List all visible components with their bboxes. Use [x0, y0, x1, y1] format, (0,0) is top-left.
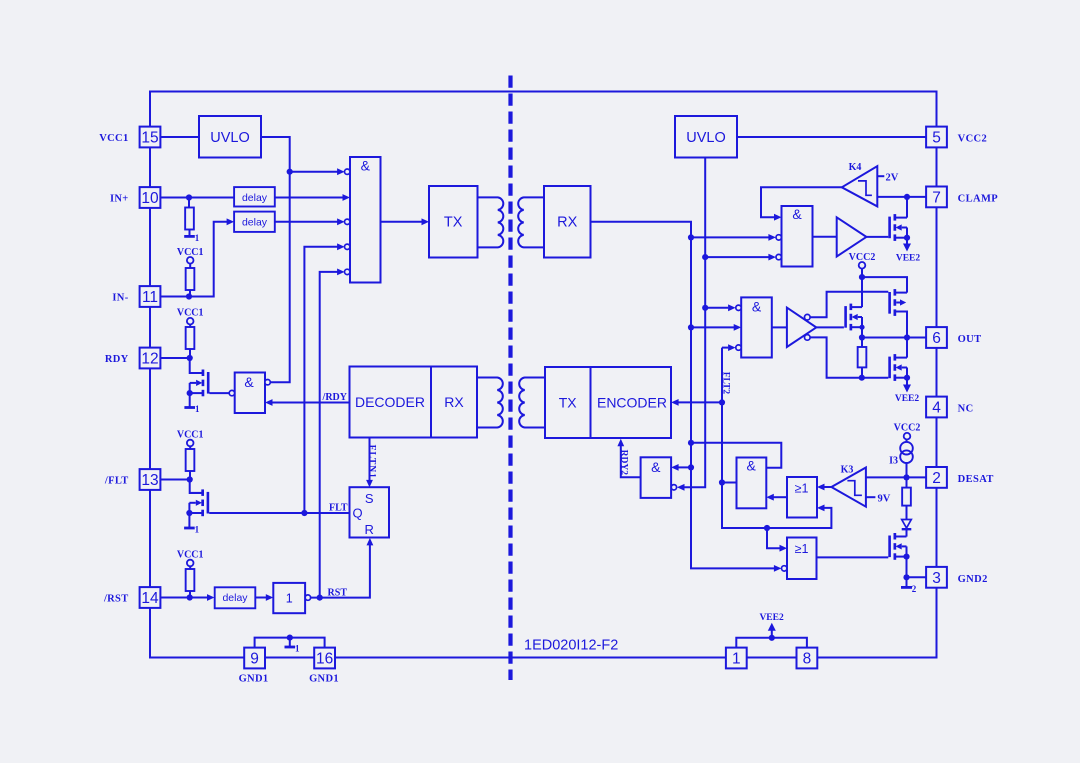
wire pin11 to delay D2 (riser) [161, 222, 228, 297]
svg-text:R: R [365, 522, 374, 537]
AND U8 (fault combine gate) [737, 458, 767, 509]
wire OR U11b output to Q7 gate [817, 556, 889, 558]
resistor R4 (pullup at /FLT) [189, 446, 191, 449]
node junction VCC2 rail [859, 274, 865, 280]
svg-text:VEE2: VEE2 [895, 394, 920, 404]
wire net FLT: Q2 gate / latch U4 Q output [209, 512, 349, 514]
wire outer border frame of IC [150, 92, 937, 658]
resistor R3 (pullup at RDY) [189, 324, 191, 327]
wire branch to AND U2 input 1 [290, 171, 338, 173]
node junction FLT2 / U8 output [719, 479, 725, 485]
svg-text:4: 4 [932, 400, 941, 417]
svg-text:&: & [244, 374, 254, 390]
pin 5 VCC2 [926, 127, 947, 148]
wire 2V reference stub [877, 175, 884, 177]
current source I3 (two circles) [906, 439, 908, 442]
pin 14 /RST [140, 587, 161, 608]
wire AND U8 output stub [722, 482, 737, 484]
wire UVLO2 to pin5 [737, 136, 926, 138]
svg-text:UVLO: UVLO [686, 130, 726, 146]
wire branch to AND U6 input 2 [691, 236, 769, 238]
node junction pin11/R2 [186, 293, 192, 299]
wire UVLO1 output net (to AND U2 input 1 and AND U3 output node) [261, 137, 290, 382]
block UVLO1 (primary undervoltage lockout) [199, 116, 261, 158]
wire FLT2 top branch to AND U7 input 3 [722, 347, 728, 349]
svg-text:2: 2 [932, 470, 941, 487]
wire CLAMP sense: pin7 to comparator K4 [877, 196, 926, 198]
pin 11 IN- [140, 286, 161, 307]
wire Q1 gate to AND U3 output bubble [210, 392, 230, 394]
svg-text:2: 2 [912, 584, 917, 594]
wire AND U7 output to inverter U12 [772, 326, 787, 328]
buffer U5 (pulse shaper '1') [273, 583, 305, 613]
svg-text:FLT: FLT [329, 503, 348, 514]
wire Q6 source to VEE2 [906, 378, 908, 385]
wire delay D2 output to AND U2 input 3 [275, 221, 338, 223]
transformer TR1 primary winding [478, 197, 504, 247]
transistor Q4 (pre-driver NMOS) [850, 304, 853, 311]
transistor Q1 (RDY open-drain NMOS) [202, 370, 205, 377]
pin 8 VEE2 [797, 648, 818, 669]
node junction pin12/R3/Q1 drain [187, 355, 193, 361]
pin 16 GND1 [314, 648, 335, 669]
node junction FLT branch [301, 510, 307, 516]
svg-text:Q: Q [352, 506, 362, 521]
pin 2 DESAT [926, 467, 947, 488]
svg-text:RDY2: RDY2 [619, 450, 629, 476]
wire comparator K4 output to AND U6 input 1 [761, 187, 842, 217]
node junction RXDATA / AND U9 in1 [688, 464, 694, 470]
wire net RXDATA (x=691 rail) from RX1 output [591, 222, 775, 569]
wire Q6 drain to OUT [906, 338, 908, 358]
svg-text:7: 7 [932, 189, 941, 206]
wire delay D1 output to AND U2 input 2 [275, 197, 343, 199]
wire Q1 drain [190, 358, 202, 373]
svg-text:delay: delay [242, 192, 268, 204]
pin 12 RDY [140, 348, 161, 369]
svg-text:1: 1 [195, 525, 200, 535]
transistor Q3 (CLAMP NMOS) [894, 214, 897, 221]
wire net FLT2: AND U8 output rail [678, 401, 722, 403]
AND U6 input bubbles [776, 235, 781, 240]
transistor Q7 (desat discharge NMOS) [894, 533, 897, 540]
node junction CLAMP net [904, 194, 910, 200]
svg-text:11: 11 [142, 289, 158, 306]
ground 2 below GND2 node [906, 577, 908, 587]
svg-text:VEE2: VEE2 [896, 254, 921, 264]
AND U6 (clamp logic gate) [782, 206, 813, 267]
op-amp U2: 5-input AND gate (IEC box) [350, 157, 381, 283]
svg-text:DESAT: DESAT [958, 474, 994, 485]
svg-text:1ED020I12-F2: 1ED020I12-F2 [524, 638, 618, 654]
node junction GND1 bracket [287, 635, 293, 641]
wire RST branch up to AND U2 input 5 [320, 272, 338, 598]
wire pin12 to R3/Q1 node [161, 357, 190, 359]
svg-text:/FLT: /FLT [104, 476, 129, 487]
pin 7 CLAMP [926, 187, 947, 208]
transistor Q6 (pull-down NMOS) [894, 354, 897, 361]
svg-text:VCC1: VCC1 [99, 133, 128, 144]
buffer U5 output bubble [305, 595, 310, 600]
node junction OUT/Q5/Q6 [904, 334, 910, 340]
svg-text:16: 16 [316, 651, 333, 668]
wire GND1 bracket joining pins 9 and 16 [255, 638, 325, 648]
transformer TR2 primary winding [477, 378, 503, 428]
wire Q4 source to OUT node [861, 327, 863, 337]
AND U3 input bubble from UVLO1 net [265, 380, 270, 385]
svg-text:RST: RST [328, 588, 348, 599]
svg-text:1: 1 [195, 404, 200, 414]
wire pin15 to UVLO1 [161, 136, 200, 138]
svg-text:12: 12 [141, 351, 158, 368]
svg-text:I3: I3 [889, 456, 898, 467]
node junction Q7 source [903, 554, 909, 560]
OR U11b (desat drive OR gate) [787, 538, 817, 580]
latch U4 (S/Q/R fault latch) [350, 487, 390, 537]
svg-text:&: & [361, 158, 371, 174]
wire branch to OR U11 input 1 [767, 528, 780, 548]
block RX1 (receiver) [544, 186, 591, 258]
wire 9V reference stub [866, 496, 876, 498]
node junction R6 bottom / gate rail [859, 375, 865, 381]
svg-text:delay: delay [222, 592, 248, 604]
wire delay D3 output to buffer U5 [255, 597, 266, 599]
wire Q7 source to GND2 net [906, 557, 908, 578]
svg-text:&: & [752, 299, 762, 315]
wire net FLTN1: DECODER to latch U4 S input [369, 438, 371, 482]
svg-text:14: 14 [141, 590, 159, 607]
svg-text:6: 6 [932, 330, 941, 347]
svg-text:GND1: GND1 [309, 674, 339, 685]
svg-text:/RDY: /RDY [322, 392, 348, 403]
AND U7 (output logic gate) [741, 297, 772, 357]
svg-text:TX: TX [444, 215, 463, 231]
input bubble OR U11 in2 [782, 566, 787, 571]
AND U3 (RDY logic gate) [235, 373, 265, 414]
wire I3 to DESAT node [906, 463, 908, 477]
AND U9 (ready combine gate) [641, 457, 672, 498]
svg-text:13: 13 [141, 472, 158, 489]
svg-text:RX: RX [557, 215, 577, 231]
wire pin14 to delay D3 [161, 597, 208, 599]
diode D4 (desat blocking diode) [902, 520, 912, 529]
block DECODER/RX2 [350, 367, 478, 438]
node junction RST branch [317, 595, 323, 601]
svg-text:GND2: GND2 [958, 574, 988, 585]
wire VEE2 arrow up [771, 630, 773, 638]
wire lower drive to Q6 gate rail [810, 337, 888, 377]
node junction UVLO2 rail / AND U7 in1 [702, 305, 708, 311]
svg-text:&: & [747, 458, 757, 474]
svg-text:3: 3 [932, 570, 941, 587]
wire U12 apex to Q4 gate [816, 326, 844, 328]
transistor Q2 (/FLT open-drain NMOS) [201, 489, 204, 496]
wire net UVLO2-status (x=705 rail) [684, 158, 706, 488]
wire AND U6 output to driver U10 [813, 236, 837, 238]
wire pin10 to delay D1 [161, 197, 235, 199]
svg-text:&: & [792, 206, 802, 222]
wire Q3 source to VEE2 [906, 238, 908, 244]
svg-text:≥1: ≥1 [795, 542, 809, 556]
svg-text:RDY: RDY [105, 354, 129, 365]
node junction DESAT net [903, 474, 909, 480]
node junction FLT2 / OR U11 in1 [764, 525, 770, 531]
ground 1 at GND1 bracket [289, 638, 291, 647]
delay D3 [215, 587, 256, 608]
svg-text:1: 1 [195, 233, 200, 243]
buffer U10 (clamp gate driver) [837, 217, 867, 256]
node junction UVLO1/U3 net [287, 169, 293, 175]
svg-text:S: S [365, 491, 374, 506]
comparator K4 (clamp comparator) [842, 166, 878, 206]
transformer TR2 secondary winding [519, 378, 545, 428]
resistor R2 (pullup at IN-) [189, 263, 191, 268]
node junction OUT/R6 [859, 334, 865, 340]
wire pin13 to R4/Q2 node [161, 479, 190, 481]
pin 3 GND2 [926, 567, 947, 588]
AND U9 input bubble [671, 485, 676, 490]
wire VCC2 rail to Q4/Q5 drains [862, 268, 907, 292]
wire net /RDY: DECODER output to AND U3 input [272, 402, 349, 404]
AND U2 input bubbles [345, 169, 350, 174]
wire D4 to Q7 drain [906, 529, 908, 536]
wire branch to AND U9 input 1 [678, 466, 691, 468]
ground 1 below R1 [189, 230, 191, 237]
wire AND U2 output to TX1 [381, 221, 423, 223]
ground 1 below Q1 source [189, 393, 191, 407]
inverter U12 output bubbles [805, 314, 811, 320]
svg-text:UVLO: UVLO [210, 130, 250, 146]
node junction Q3 source [904, 235, 910, 241]
svg-text:≥1: ≥1 [795, 482, 809, 496]
wire VEE2 bracket joining pins 1 and 8 [736, 638, 807, 648]
node junction pin13/R4/Q2 drain [187, 476, 193, 482]
wire upper drive to Q5 gate [810, 292, 888, 317]
wire OR U11a output to AND U8 [774, 496, 788, 498]
svg-text:&: & [651, 459, 661, 475]
svg-text:1: 1 [286, 592, 293, 606]
resistor R1 (pulldown at IN+) [188, 198, 190, 208]
svg-text:NC: NC [958, 404, 974, 415]
transformer TR1 secondary winding [518, 197, 544, 247]
pin 15 VCC1 [140, 127, 161, 148]
wire net RST: buffer U5 output to latch U4 R input [311, 544, 370, 598]
node junction VEE2 bracket [769, 635, 775, 641]
svg-text:DECODER: DECODER [355, 394, 425, 410]
svg-text:VEE2: VEE2 [759, 613, 784, 623]
wire branch to AND U8 top input [691, 443, 781, 468]
svg-text:/RST: /RST [103, 594, 129, 605]
wire galvanic isolation barrier (dashed) [508, 76, 512, 681]
svg-text:8: 8 [803, 651, 812, 668]
node junction RXDATA / AND U7 in2 [688, 324, 694, 330]
node junction pin10/R1 [186, 194, 192, 200]
block TX1 (transmitter) [429, 186, 478, 258]
svg-text:1: 1 [732, 651, 741, 668]
svg-text:GND1: GND1 [239, 674, 269, 685]
wire driver U10 to Q3 gate [866, 236, 888, 238]
wire branch to AND U7 input 1 [705, 307, 728, 309]
wire branch to AND U6 input 3 [705, 256, 768, 258]
svg-text:15: 15 [141, 130, 158, 147]
delay D1 [234, 187, 275, 206]
node junction FLT2/ENCODER [719, 399, 725, 405]
svg-text:FLT2: FLT2 [720, 372, 730, 395]
transistor Q5 (pull-up PMOS) [894, 289, 897, 296]
AND U7 input bubbles [736, 305, 741, 310]
wire R7 to diode D4 [906, 506, 908, 519]
svg-text:FLTN1: FLTN1 [367, 445, 377, 479]
wire net RDY2: AND U9 output to ENCODER [621, 445, 641, 477]
pin 1 VEE2 [726, 648, 747, 669]
resistor R5 (pullup at /RST) [189, 566, 191, 569]
svg-text:1: 1 [295, 644, 300, 654]
svg-text:delay: delay [242, 217, 268, 229]
wire Q3 drain to CLAMP net [906, 197, 908, 218]
pin 13 /FLT [140, 469, 161, 490]
node junction RXDATA / AND U6 in2 [688, 234, 694, 240]
pin 10 IN+ [140, 187, 161, 208]
node junction Q6 source [904, 375, 910, 381]
svg-text:10: 10 [141, 190, 159, 207]
wire net OUT to pin6 [862, 337, 926, 339]
node junction pin14/R5 [187, 594, 193, 600]
OR U11a (desat OR gate) [787, 477, 817, 518]
svg-text:ENCODER: ENCODER [597, 395, 667, 411]
svg-text:K4: K4 [849, 162, 862, 173]
svg-text:CLAMP: CLAMP [958, 193, 999, 204]
svg-text:VCC2: VCC2 [958, 134, 988, 145]
inverter U12 (complementary driver) [787, 308, 816, 347]
wire Q2 drain [190, 480, 202, 494]
node junction Q4 source [859, 325, 864, 330]
pin 4 NC [926, 397, 947, 418]
comparator K3 (DESAT comparator) [824, 486, 831, 488]
wire DESAT node down to R7 [906, 477, 908, 487]
delay D2 [234, 212, 275, 232]
wire DESAT sense: pin2 to K3 [866, 476, 926, 478]
svg-text:TX: TX [559, 395, 578, 411]
svg-text:IN-: IN- [112, 293, 128, 304]
resistor R7 (desat filter) [902, 488, 911, 506]
svg-text:9: 9 [250, 651, 259, 668]
wire branch to AND U7 input 2 [691, 326, 734, 328]
svg-text:RX: RX [444, 394, 464, 410]
svg-text:IN+: IN+ [110, 194, 129, 205]
wire GND2: pin3 line [907, 576, 927, 578]
pin 9 GND1 [244, 648, 265, 669]
block TX2/ENCODER [545, 367, 671, 438]
resistor R6 (gate resistor) [861, 338, 863, 348]
svg-text:OUT: OUT [958, 334, 982, 345]
AND U3 output bubble to Q1 gate [229, 390, 234, 395]
node junction RXDATA / AND U8 in2 [688, 440, 694, 446]
svg-text:K3: K3 [841, 465, 854, 476]
svg-text:9V: 9V [878, 493, 891, 504]
ground 1 below Q2 source [188, 513, 190, 528]
svg-text:5: 5 [932, 130, 941, 147]
wire FLT branch up to AND U2 input 4 [304, 247, 337, 513]
node junction UVLO2 rail / AND U6 in3 [702, 254, 708, 260]
svg-text:2V: 2V [886, 172, 899, 183]
node junction GND2 [903, 574, 909, 580]
pin 6 OUT [926, 327, 947, 348]
wire Q4 drain up to VCC2 rail [861, 277, 863, 307]
block UVLO2 (secondary undervoltage lockout) [675, 116, 737, 158]
